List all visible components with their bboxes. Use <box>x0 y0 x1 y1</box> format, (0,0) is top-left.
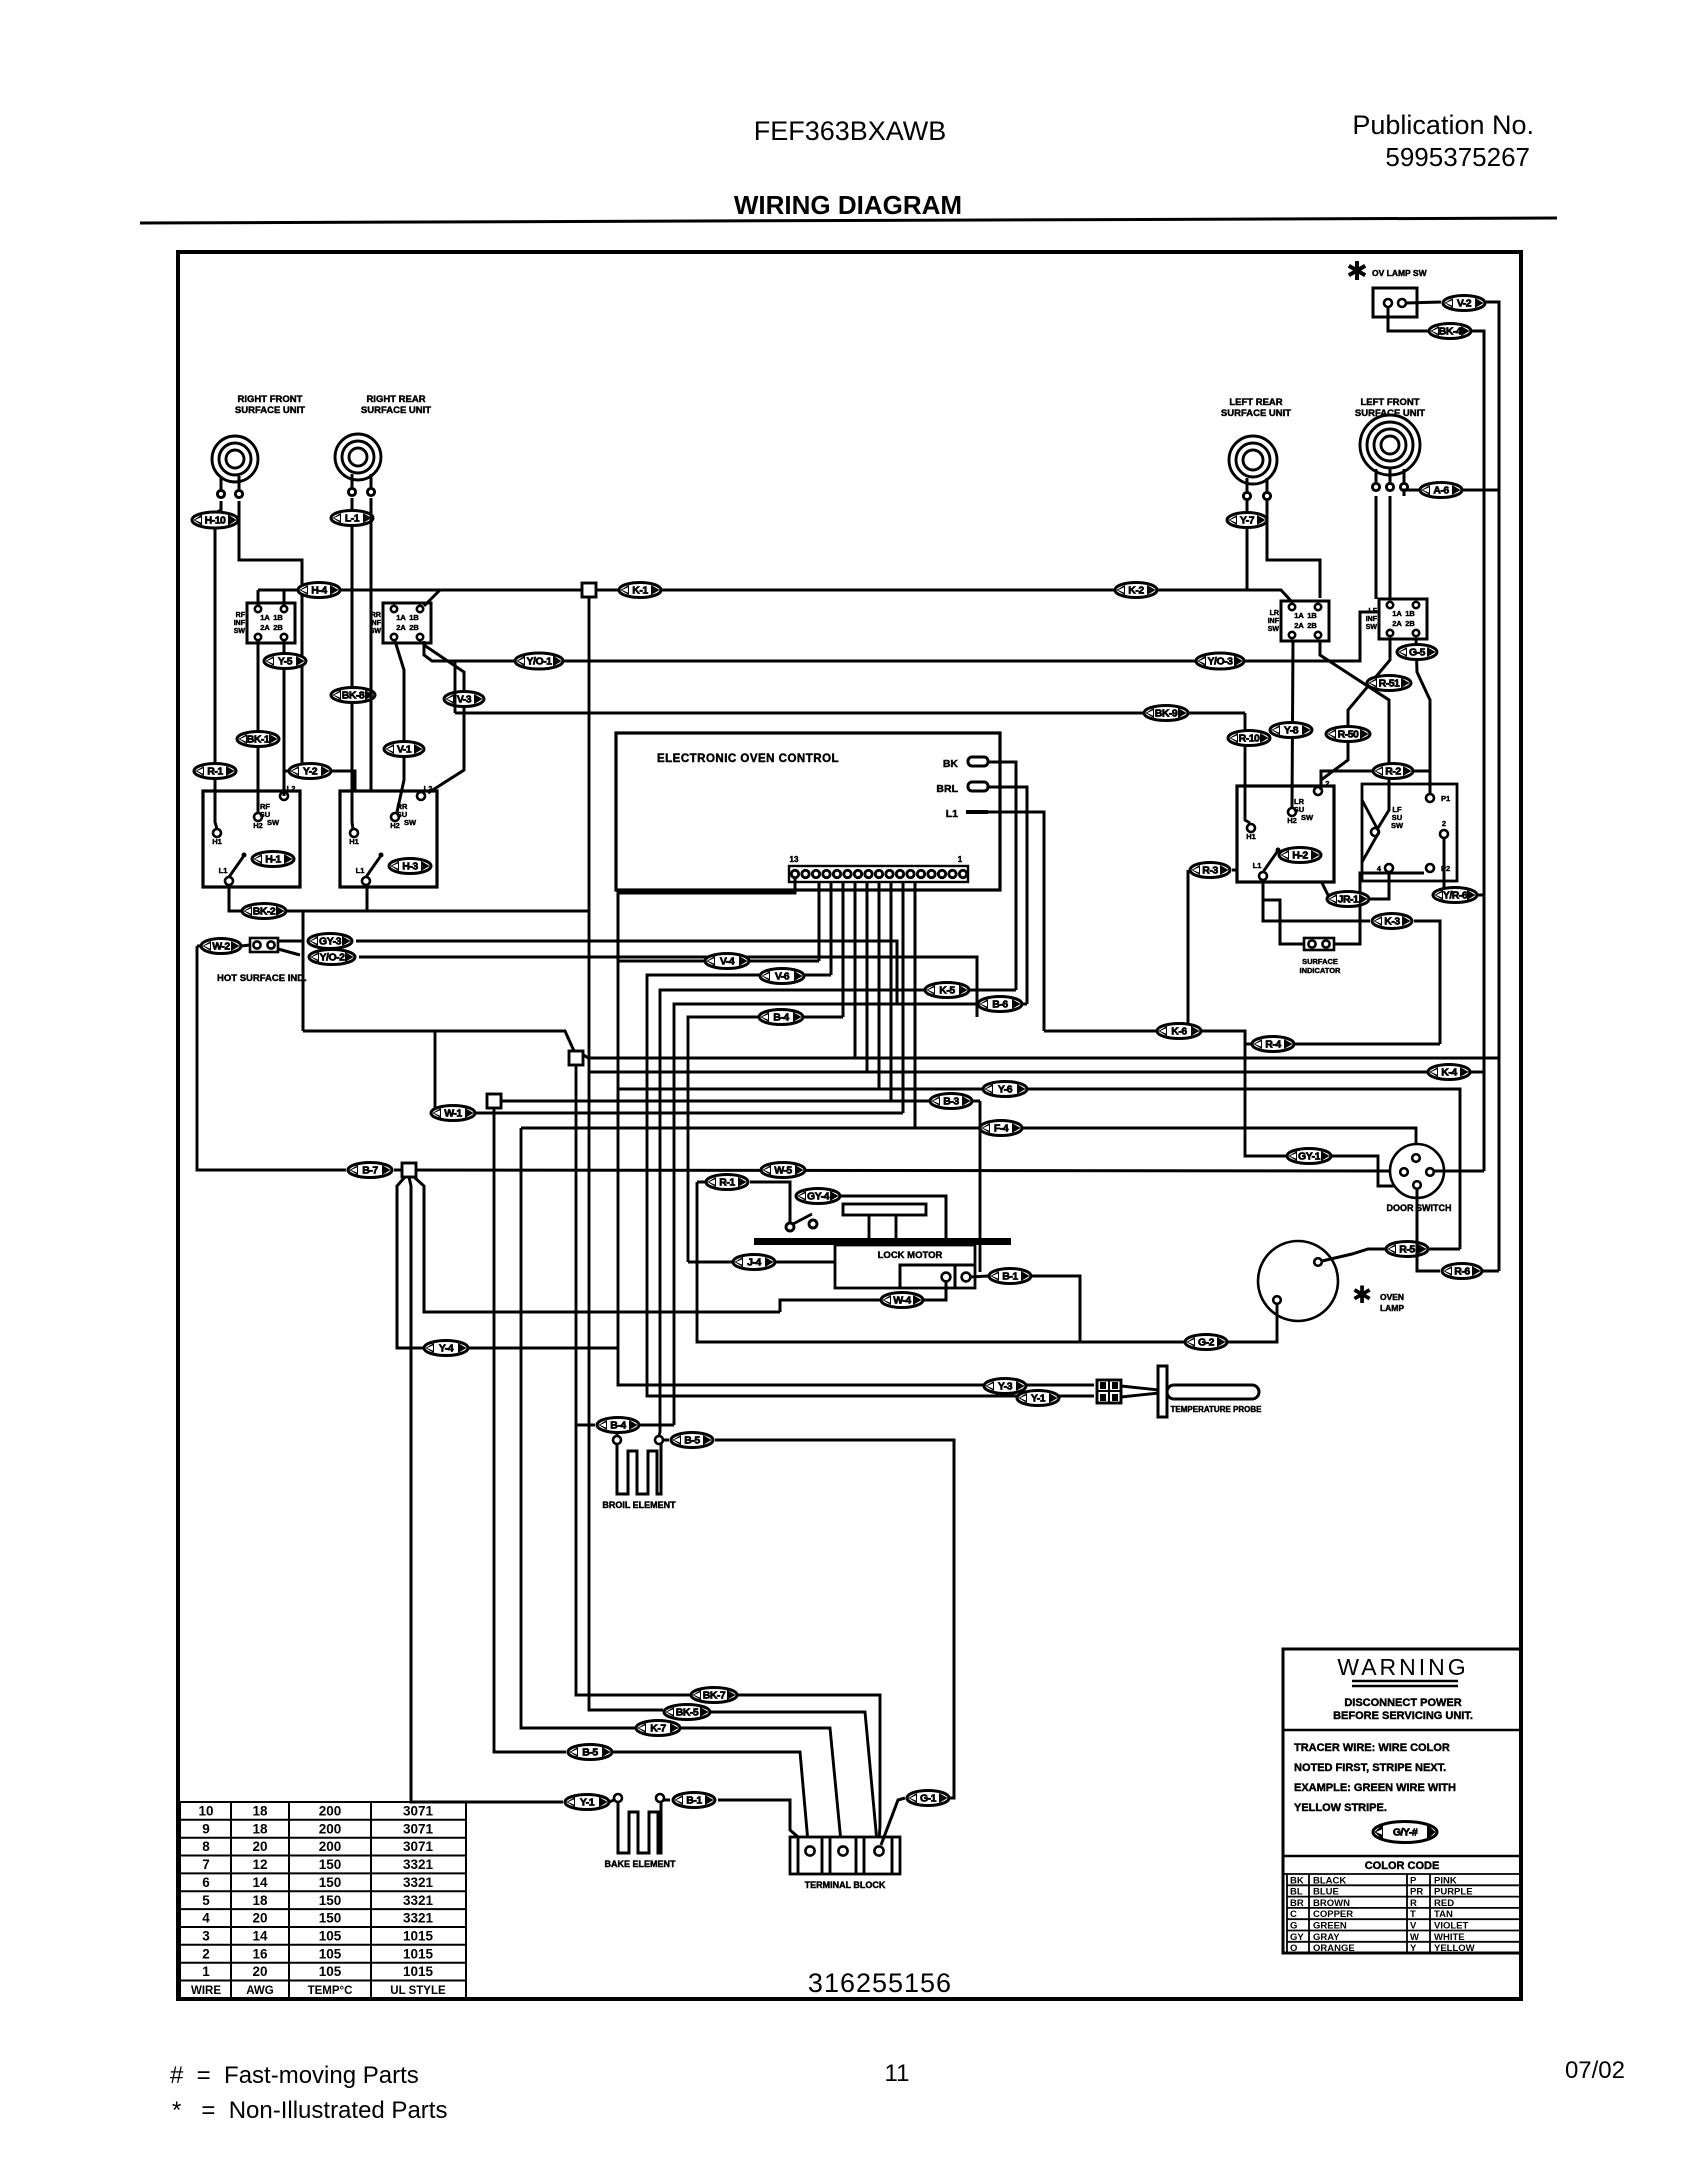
wire label K-7 <box>636 1721 680 1736</box>
RR pin H1 <box>350 829 358 837</box>
door switch pin top <box>1412 1154 1420 1162</box>
oven lamp pin top <box>1314 1258 1322 1266</box>
wire label Y-5 <box>264 654 306 669</box>
svg-text:2A: 2A <box>260 623 270 632</box>
broil element loops <box>617 1444 661 1494</box>
svg-text:1015: 1015 <box>403 1946 434 1961</box>
RR pin 2B <box>417 634 423 640</box>
svg-text:07/02: 07/02 <box>1565 2057 1625 2084</box>
svg-text:H-10: H-10 <box>205 515 226 527</box>
wire LR SU L1 down <box>1263 881 1440 1044</box>
svg-text:150: 150 <box>319 1857 342 1872</box>
svg-text:HOT SURFACE IND.: HOT SURFACE IND. <box>217 973 307 984</box>
wire label Y-2 <box>289 764 331 779</box>
RF pin L2 <box>280 792 288 800</box>
wire label Y/O-2 <box>309 950 355 965</box>
svg-text:VIOLET: VIOLET <box>1434 1921 1469 1932</box>
svg-text:WARNING: WARNING <box>1337 1654 1468 1680</box>
svg-text:B-4: B-4 <box>773 1012 789 1024</box>
wire label K-6 <box>1157 1024 1201 1039</box>
wire RR coil right pin down <box>370 498 373 791</box>
svg-text:2A: 2A <box>1294 621 1304 630</box>
wire LR SU bottom to LF pin4 <box>1321 873 1389 899</box>
wire label W-4 <box>881 1293 923 1308</box>
bake element pin left <box>614 1794 622 1802</box>
svg-text:L1: L1 <box>1253 861 1262 870</box>
door switch body <box>1390 1144 1444 1198</box>
svg-text:W-2: W-2 <box>212 941 230 953</box>
wire oven lamp bottom to green run <box>697 1182 1277 1342</box>
svg-text:SURFACE: SURFACE <box>1302 957 1338 966</box>
svg-text:200: 200 <box>319 1804 342 1819</box>
lock motor switch contact 1 <box>786 1223 794 1231</box>
wire B-4 capsule link <box>576 1425 674 1436</box>
svg-text:K-4: K-4 <box>1441 1067 1457 1079</box>
LF pin 1B <box>1413 602 1419 608</box>
lock motor inner terminal box <box>900 1265 975 1288</box>
wire strip pin v 831 <box>830 882 833 975</box>
svg-text:INF: INF <box>234 620 246 627</box>
wire run y1058 <box>576 1051 1499 1840</box>
svg-text:BK: BK <box>1290 1875 1304 1886</box>
RF surface unit switch body <box>203 791 300 887</box>
wire gauge table <box>180 1802 466 1998</box>
temperature probe connector block <box>1097 1380 1121 1403</box>
svg-text:WHITE: WHITE <box>1434 1932 1465 1943</box>
wire LR L2 to LF P1 <box>1321 771 1430 793</box>
svg-text:AWG: AWG <box>246 1985 274 1997</box>
wire LR INF 2B crossover to LF left pin <box>1320 641 1389 828</box>
LF pin left <box>1371 828 1379 836</box>
wire door switch right pin to bus <box>1434 1170 1484 1173</box>
wire label BK-5 <box>664 1705 710 1720</box>
svg-text:200: 200 <box>319 1821 342 1836</box>
wire capsule V-2 to right bus <box>1485 302 1499 1271</box>
svg-text:R: R <box>1410 1898 1417 1909</box>
svg-text:EXAMPLE: GREEN WIRE WITH: EXAMPLE: GREEN WIRE WITH <box>1294 1782 1456 1794</box>
wire label W-2 <box>201 939 241 954</box>
svg-text:20: 20 <box>252 1964 267 1979</box>
svg-text:BR: BR <box>1290 1898 1304 1909</box>
RR pin 2A <box>391 634 397 640</box>
wire run y1031 right <box>1044 1031 1440 1044</box>
wire lock motor left J-4 <box>688 1261 835 1264</box>
wire label BK-8 <box>331 688 375 703</box>
wire label K-4 <box>1428 1065 1470 1080</box>
wire label BK-9 <box>1144 706 1188 721</box>
oven lamp switch OV LAMP SW <box>1373 288 1417 317</box>
svg-text:P: P <box>1410 1875 1417 1886</box>
wire RF INF 1A up to bus <box>257 590 260 605</box>
LR pin 2A <box>1289 632 1295 638</box>
right front surface unit coil <box>212 436 258 498</box>
svg-text:B-5: B-5 <box>684 1435 700 1447</box>
wire LF INF 2B down <box>1416 639 1430 793</box>
svg-text:2: 2 <box>202 1946 210 1961</box>
lock motor cam bar <box>843 1204 926 1215</box>
svg-text:GRAY: GRAY <box>1313 1932 1340 1943</box>
svg-text:V-6: V-6 <box>775 971 790 983</box>
svg-text:SW: SW <box>1391 821 1404 830</box>
svg-text:R-1: R-1 <box>719 1177 735 1189</box>
wire run y1017 <box>688 1017 843 1262</box>
wire label Y/R-6 <box>1433 888 1477 903</box>
wire label B-4b <box>597 1418 639 1433</box>
wire run y1101 <box>494 1101 980 1842</box>
svg-text:GY-3: GY-3 <box>319 936 342 948</box>
wire lamp switch pin1 down <box>1388 307 1428 331</box>
LF switch arm <box>1362 800 1379 862</box>
svg-text:105: 105 <box>319 1964 342 1979</box>
EOC connector L1 <box>966 810 988 814</box>
hot surface indicator lamp <box>250 938 278 952</box>
wire label Y/O-3 <box>1196 653 1244 669</box>
svg-text:TERMINAL BLOCK: TERMINAL BLOCK <box>805 1880 886 1890</box>
svg-text:H2: H2 <box>1287 816 1297 825</box>
svg-text:20: 20 <box>252 1911 267 1926</box>
wire run y1004 to bake-4 line <box>674 1004 1027 1425</box>
wire door bottom pin loop <box>1417 1189 1440 1271</box>
svg-text:PR: PR <box>1410 1887 1423 1898</box>
wire label example G/Y-8 <box>1373 1822 1437 1843</box>
LR pin 2B <box>1315 632 1321 638</box>
wire L1 connector run <box>988 812 1044 1031</box>
RF infinite switch body <box>247 603 295 643</box>
svg-text:COPPER: COPPER <box>1313 1909 1353 1920</box>
wire run y1031 left <box>303 911 574 1051</box>
wire LR coil left pin down <box>1246 498 1249 590</box>
svg-text:6: 6 <box>202 1875 210 1890</box>
svg-text:K-3: K-3 <box>1384 916 1400 928</box>
svg-text:SURFACE UNIT: SURFACE UNIT <box>361 405 431 416</box>
svg-text:H2: H2 <box>253 821 263 830</box>
svg-text:V-4: V-4 <box>720 956 735 968</box>
LF pin P1 <box>1426 794 1434 802</box>
EOC terminal strip <box>789 866 968 882</box>
junction y1101 <box>487 1094 501 1108</box>
RR surface unit switch body <box>340 791 437 887</box>
wire label K-1 <box>619 583 661 598</box>
wire RF INF 2B down to RF L2 <box>283 641 286 792</box>
wire label V-1 <box>384 742 424 757</box>
svg-text:BK-9: BK-9 <box>1155 708 1178 720</box>
svg-text:105: 105 <box>319 1946 342 1961</box>
LR infinite switch body <box>1281 601 1329 641</box>
svg-text:5: 5 <box>202 1893 210 1908</box>
wire into RF H1 <box>215 779 217 829</box>
wire label Y/O-1 <box>515 653 563 669</box>
wire label R-1b <box>706 1175 748 1190</box>
svg-text:Publication No.: Publication No. <box>1352 110 1534 140</box>
LR pin H2 <box>1288 808 1296 816</box>
svg-text:G-1: G-1 <box>920 1793 937 1805</box>
svg-text:2B: 2B <box>1405 619 1415 628</box>
svg-text:SW: SW <box>1268 626 1280 633</box>
wire Y-1 capsule link <box>609 1800 614 1802</box>
svg-text:T: T <box>1410 1909 1416 1920</box>
wire RF INF 2A down to RF H2 <box>257 641 260 812</box>
wire label V-3 <box>444 692 484 707</box>
svg-text:Y/R-6: Y/R-6 <box>1443 890 1468 902</box>
oven lamp pin bottom <box>1273 1296 1281 1304</box>
svg-text:1B: 1B <box>1307 611 1317 620</box>
wire run y1089 <box>618 1089 1460 1249</box>
svg-text:18: 18 <box>252 1821 268 1836</box>
bake element pin right <box>656 1794 664 1802</box>
wire lamp switch pin2 to capsule <box>1406 302 1441 303</box>
svg-text:150: 150 <box>319 1893 342 1908</box>
wire label BK-2 <box>242 904 286 919</box>
svg-text:H1: H1 <box>212 837 222 846</box>
wire LF INF 2A crossover to LR L2 <box>1321 639 1390 786</box>
LF pin 2 <box>1440 830 1448 838</box>
LF surface unit switch body <box>1362 784 1457 881</box>
wire label G-1 <box>907 1791 949 1806</box>
svg-text:P2: P2 <box>1441 864 1450 873</box>
wire A-6 to right bus <box>1462 489 1499 492</box>
svg-text:✱: ✱ <box>1346 256 1368 286</box>
wire bake right pin to B-1 <box>664 1800 806 1844</box>
left front surface unit coil <box>1360 415 1420 491</box>
svg-text:R-1: R-1 <box>207 766 223 778</box>
wire label W-5 <box>761 1163 805 1178</box>
svg-text:* = Non-Illustrated Parts: * = Non-Illustrated Parts <box>172 2097 447 2124</box>
svg-text:3321: 3321 <box>403 1893 434 1908</box>
svg-text:3071: 3071 <box>403 1804 434 1819</box>
door switch pin left <box>1400 1168 1408 1176</box>
svg-text:SW: SW <box>267 818 280 827</box>
RF pin 2B <box>281 634 287 640</box>
LR pin H1 <box>1247 824 1255 832</box>
wire label F-4 <box>980 1121 1022 1136</box>
wire main run y1170 to door switch <box>197 946 1399 1171</box>
lock motor switch contact 2 <box>809 1220 817 1228</box>
wire junction drop left loop <box>397 1177 618 1348</box>
wire strip pin v 903 <box>902 882 905 1113</box>
svg-text:DOOR SWITCH: DOOR SWITCH <box>1387 1203 1452 1213</box>
wire RR INF 2A down to RR H2 <box>395 641 404 812</box>
svg-text:W-4: W-4 <box>893 1295 911 1307</box>
wire oven lamp top to R-5 <box>1322 1249 1385 1261</box>
svg-text:R-5: R-5 <box>1399 1244 1415 1256</box>
svg-text:✱: ✱ <box>1352 1282 1372 1309</box>
lock motor terminal b <box>962 1273 971 1282</box>
wire label H-1 in RF switch <box>252 852 294 867</box>
electronic oven control U1 <box>616 733 1000 890</box>
wire label JR-1 <box>1327 892 1369 907</box>
wire label R-51 <box>1367 676 1411 691</box>
svg-text:R-2: R-2 <box>1385 766 1401 778</box>
wire R-6 to right bus <box>1482 1270 1499 1273</box>
wire bus y590 junction drop <box>589 597 877 1842</box>
LR surface unit switch body <box>1237 786 1334 882</box>
wire RF coil right pin down <box>239 501 302 771</box>
wire label B-6 <box>978 997 1022 1012</box>
RR pin L1 <box>362 877 370 885</box>
RF pin H2 <box>254 813 262 821</box>
wire label Y-3 <box>984 1379 1026 1394</box>
svg-text:SURFACE UNIT: SURFACE UNIT <box>1221 408 1291 419</box>
svg-text:A-6: A-6 <box>1433 485 1449 497</box>
svg-text:LAMP: LAMP <box>1380 1303 1404 1313</box>
wire LR INF 2A down to LR H2 <box>1292 641 1293 807</box>
svg-text:1A: 1A <box>1294 611 1304 620</box>
svg-text:R-51: R-51 <box>1379 678 1400 690</box>
svg-text:K-6: K-6 <box>1171 1026 1187 1038</box>
EOC connector BRL <box>968 782 988 791</box>
RR pin H2 <box>391 813 399 821</box>
wire label B-1a <box>989 1269 1031 1284</box>
svg-text:RF: RF <box>236 612 246 619</box>
svg-text:SURFACE UNIT: SURFACE UNIT <box>235 405 305 416</box>
svg-text:UL STYLE: UL STYLE <box>390 1985 446 1997</box>
oven lamp switch pin 2 <box>1398 299 1406 307</box>
svg-text:H-1: H-1 <box>265 854 281 866</box>
wire R-5 to vertical <box>1428 1248 1460 1251</box>
RF pin L1 <box>225 877 233 885</box>
svg-text:1B: 1B <box>409 613 419 622</box>
svg-text:BEFORE SERVICING UNIT.: BEFORE SERVICING UNIT. <box>1333 1710 1473 1722</box>
wire RR INF 1B stub to bus <box>424 590 440 606</box>
svg-text:R-3: R-3 <box>1202 865 1218 877</box>
svg-text:2B: 2B <box>1307 621 1317 630</box>
diagram border frame <box>178 252 1521 1999</box>
svg-text:FEF363BXAWB: FEF363BXAWB <box>754 116 947 146</box>
RF pin H1 <box>213 829 221 837</box>
bake element loops <box>618 1802 661 1853</box>
warning divider 2 <box>1283 1855 1521 1858</box>
wire V-1 crossover <box>424 645 464 793</box>
wire label R-1 left <box>194 764 236 779</box>
svg-text:C: C <box>1290 1909 1297 1920</box>
svg-text:B-3: B-3 <box>943 1096 959 1108</box>
svg-text:G-5: G-5 <box>1409 647 1426 659</box>
wire label G-5 <box>1397 645 1437 660</box>
wire label H-2 in LR switch <box>1279 848 1321 863</box>
svg-text:O: O <box>1290 1943 1297 1954</box>
wire main bus y590 <box>258 590 1293 603</box>
LF pin 1A <box>1387 602 1393 608</box>
svg-text:GREEN: GREEN <box>1313 1921 1347 1932</box>
svg-text:11: 11 <box>885 2060 910 2087</box>
LR switch arm <box>1263 852 1277 872</box>
wire label B-5b <box>568 1745 612 1760</box>
wire run y1128 to door switch top <box>521 1128 1416 1842</box>
svg-text:V: V <box>1410 1921 1417 1932</box>
svg-text:1A: 1A <box>396 613 406 622</box>
svg-text:3321: 3321 <box>403 1875 434 1890</box>
svg-text:4: 4 <box>202 1911 210 1926</box>
svg-text:8: 8 <box>202 1839 210 1854</box>
svg-text:18: 18 <box>252 1893 268 1908</box>
wire LF coil pins down <box>1376 496 1390 599</box>
svg-text:1A: 1A <box>260 613 270 622</box>
svg-text:G: G <box>1290 1921 1297 1932</box>
svg-text:ELECTRONIC OVEN CONTROL: ELECTRONIC OVEN CONTROL <box>657 753 839 765</box>
svg-text:B-7: B-7 <box>362 1165 378 1177</box>
svg-text:20: 20 <box>252 1839 267 1854</box>
svg-text:BROIL ELEMENT: BROIL ELEMENT <box>602 1500 676 1510</box>
terminal block lug 1 <box>805 1846 814 1855</box>
wire label R-10 <box>1228 731 1270 746</box>
svg-text:V-3: V-3 <box>457 694 472 706</box>
svg-text:BK: BK <box>943 758 959 770</box>
wire label H-10 <box>192 512 238 528</box>
wire label B-7 <box>348 1163 392 1178</box>
svg-text:Y-3: Y-3 <box>998 1381 1013 1393</box>
svg-text:INF: INF <box>1366 616 1378 623</box>
oven lamp body <box>1258 1241 1338 1321</box>
LR pin L2 <box>1314 787 1322 795</box>
svg-text:F-4: F-4 <box>994 1123 1009 1135</box>
surface indicator pin right <box>1322 940 1329 947</box>
wire label A-6 <box>1420 483 1462 498</box>
svg-text:2A: 2A <box>396 623 406 632</box>
svg-text:V-1: V-1 <box>397 744 412 756</box>
hot surface indicator pin right <box>267 941 274 948</box>
svg-text:Y/O-2: Y/O-2 <box>320 952 346 964</box>
svg-text:Y-1: Y-1 <box>1031 1393 1046 1405</box>
svg-text:BK-5: BK-5 <box>676 1707 699 1719</box>
lock motor switch arm <box>793 1214 812 1224</box>
EOC terminal strip pins <box>791 870 966 877</box>
wire run y1072 <box>589 1071 1484 1074</box>
wire EOC pin13 jog left <box>618 878 795 961</box>
svg-text:R-4: R-4 <box>1265 1039 1281 1051</box>
wire BK connector run <box>988 762 1016 990</box>
wire label B-1b <box>673 1793 715 1808</box>
svg-text:14: 14 <box>252 1875 268 1890</box>
svg-text:COLOR CODE: COLOR CODE <box>1365 1860 1440 1872</box>
svg-text:H2: H2 <box>390 821 400 830</box>
wire label R-5 <box>1386 1242 1428 1257</box>
svg-text:K-2: K-2 <box>1128 585 1144 597</box>
svg-text:V-2: V-2 <box>1457 298 1472 310</box>
LR pin L1 <box>1259 872 1267 880</box>
wire RR SU L1 stub <box>366 885 369 911</box>
wire label K-5 <box>925 983 969 998</box>
surface indicator lamp <box>1304 938 1334 950</box>
warning title underline <box>1352 1681 1458 1686</box>
svg-text:2A: 2A <box>1392 619 1402 628</box>
wire label B-4a <box>759 1010 803 1025</box>
svg-text:OV LAMP SW: OV LAMP SW <box>1372 268 1428 278</box>
svg-text:BK-1: BK-1 <box>247 734 270 746</box>
wire label Y-6 <box>983 1082 1027 1097</box>
svg-text:5995375267: 5995375267 <box>1385 142 1530 172</box>
svg-text:LOCK MOTOR: LOCK MOTOR <box>878 1250 943 1261</box>
svg-text:BLUE: BLUE <box>1313 1887 1339 1898</box>
svg-text:H1: H1 <box>349 837 359 846</box>
terminal block lug 2 <box>838 1846 847 1855</box>
svg-text:1015: 1015 <box>403 1929 434 1944</box>
wire hot surface to GY-3 run <box>278 941 897 1004</box>
wire label K-3 <box>1372 914 1412 929</box>
svg-text:150: 150 <box>319 1875 342 1890</box>
wire label Y-1 <box>1017 1391 1059 1406</box>
right rear surface unit coil <box>335 434 381 496</box>
temperature probe lead taper <box>1121 1386 1159 1397</box>
wire run y975 to probe <box>647 975 1094 1396</box>
svg-text:B-6: B-6 <box>992 999 1008 1011</box>
svg-text:WIRE: WIRE <box>191 1985 221 1997</box>
svg-text:Y-7: Y-7 <box>1240 515 1255 527</box>
svg-text:GY: GY <box>1290 1932 1304 1943</box>
svg-text:SW: SW <box>404 818 417 827</box>
RR infinite switch body <box>383 603 431 643</box>
junction y1170 <box>402 1163 416 1177</box>
svg-text:BRL: BRL <box>936 783 958 795</box>
